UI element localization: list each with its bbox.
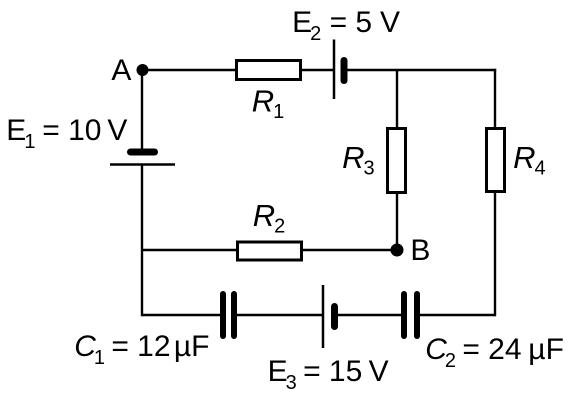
battery E3 positive plate (long thin) <box>322 285 325 348</box>
capacitor C1 right plate <box>231 294 237 336</box>
svg-text:R4: R4 <box>513 140 546 180</box>
node A junction dot <box>137 64 149 76</box>
wire bottom from C1 to E3 <box>236 314 323 316</box>
svg-text:E3 = 15 V: E3 = 15 V <box>268 355 389 394</box>
resistor R3 <box>388 129 406 193</box>
wire middle from R2 to node B <box>301 249 397 251</box>
wire bottom from E3 to C2 <box>338 314 402 316</box>
wire R3 to node B <box>396 193 398 250</box>
svg-text:C2 = 24 µF: C2 = 24 µF <box>425 333 564 372</box>
battery E3 negative plate (short thick) <box>331 307 338 327</box>
wire bottom from left rail to C1 <box>142 314 221 316</box>
wire bottom from C2 to right rail <box>419 314 495 316</box>
resistor R1 <box>237 61 301 80</box>
svg-text:C1 = 12 µF: C1 = 12 µF <box>74 330 209 369</box>
battery E2 positive plate (long thin) <box>333 40 336 100</box>
svg-text:B: B <box>410 234 430 267</box>
wire left rail from node A to E1 <box>141 70 143 150</box>
capacitor C2 right plate <box>414 294 420 336</box>
wire top from node A to R1 <box>142 69 236 71</box>
capacitor C2 left plate <box>401 294 407 336</box>
svg-text:E1 = 10 V: E1 = 10 V <box>6 114 127 153</box>
svg-text:A: A <box>111 54 131 87</box>
svg-text:R2: R2 <box>253 198 286 238</box>
wire right rail upper (corner to R4) <box>494 69 496 128</box>
wire top from E2 to top-right corner <box>346 69 496 71</box>
battery E1 negative plate (short thick) <box>131 149 155 156</box>
wire R3 branch from top wire <box>396 70 398 128</box>
wire left rail from E1 to bottom wire <box>141 165 143 316</box>
resistor R4 <box>487 129 505 192</box>
wire top from R1 to E2 <box>301 69 334 71</box>
svg-text:E2 = 5 V: E2 = 5 V <box>292 6 400 45</box>
battery E2 negative plate (short thick) <box>341 61 348 81</box>
node B junction dot <box>391 244 404 257</box>
svg-text:R3: R3 <box>342 140 375 180</box>
wire middle from left rail to R2 <box>142 249 236 251</box>
wire right rail lower (R4 to bottom wire) <box>494 192 496 316</box>
battery E1 positive plate (long thin) <box>110 163 175 166</box>
capacitor C1 left plate <box>220 294 226 336</box>
svg-text:R1: R1 <box>252 84 285 124</box>
resistor R2 <box>238 242 302 260</box>
